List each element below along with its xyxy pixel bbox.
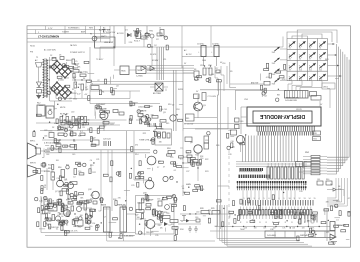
svg-text:S5: S5 — [289, 58, 291, 60]
bl left boost — [35, 197, 65, 228]
display module pin header — [257, 126, 316, 136]
svg-text:C6: C6 — [78, 84, 80, 86]
svg-text:C21: C21 — [96, 159, 99, 161]
svg-text:5: 5 — [264, 198, 265, 200]
svg-text:AMP: AMP — [81, 31, 86, 34]
svg-text:C4: C4 — [182, 188, 184, 190]
svg-text:220: 220 — [196, 211, 199, 213]
svg-text:R50: R50 — [48, 165, 51, 167]
svg-text:RL1: RL1 — [186, 118, 189, 120]
regulator U2 7812 — [136, 66, 155, 78]
svg-text:R4 47K: R4 47K — [150, 54, 157, 56]
svg-text:S1: S1 — [289, 48, 291, 50]
matrix top interconnect wires — [287, 30, 337, 43]
svg-text:1000: 1000 — [202, 60, 206, 62]
svg-text:L1: L1 — [91, 84, 93, 86]
display decoupling caps — [235, 118, 244, 129]
svg-text:C7: C7 — [157, 167, 159, 169]
matrix diode D17 — [309, 52, 316, 60]
svg-text:C2: C2 — [214, 226, 216, 228]
crystal X1 — [150, 83, 168, 95]
capacitor C3 — [197, 44, 206, 67]
mains cluster texture — [195, 68, 222, 83]
svg-text:C10: C10 — [206, 68, 209, 70]
wire center bus — [218, 79, 221, 229]
svg-text:470: 470 — [51, 171, 54, 173]
svg-text:SW4: SW4 — [272, 83, 276, 85]
matrix diode D18 — [319, 52, 326, 60]
svg-text:1-05-4001 KB: 1-05-4001 KB — [285, 100, 297, 102]
svg-text:C4 470u: C4 470u — [212, 44, 219, 46]
svg-text:2SB 2SD: 2SB 2SD — [146, 232, 154, 234]
svg-text:D2: D2 — [154, 45, 156, 47]
svg-text:R9: R9 — [230, 71, 232, 73]
svg-text:S14: S14 — [299, 80, 302, 82]
wire top bus — [100, 46, 283, 48]
wire display data bus — [243, 136, 298, 162]
mains box labels — [184, 49, 223, 65]
matrix diode D21 — [309, 63, 316, 71]
svg-text:C3 470u: C3 470u — [197, 44, 204, 46]
spk area boost — [33, 160, 69, 193]
nested area boost — [216, 199, 242, 226]
svg-text:T1 EI-57: T1 EI-57 — [96, 59, 103, 61]
svg-text:R2: R2 — [72, 89, 74, 91]
wire bottom rails — [210, 226, 330, 231]
svg-text:C8 C9: C8 C9 — [296, 109, 303, 111]
svg-text:C48: C48 — [46, 154, 49, 156]
svg-text:8 OHM: 8 OHM — [44, 151, 50, 153]
bridge wiring — [50, 57, 82, 110]
title block table — [27, 26, 110, 42]
svg-text:S8: S8 — [319, 58, 321, 60]
svg-text:BR MW: BR MW — [152, 60, 158, 62]
svg-text:Q3: Q3 — [98, 128, 100, 130]
svg-text:R15: R15 — [48, 168, 51, 170]
svg-text:D5: D5 — [160, 228, 162, 230]
power amp box — [136, 196, 175, 235]
svg-text:R22: R22 — [149, 124, 152, 126]
relay area boost — [36, 104, 58, 130]
mid right texture — [137, 154, 183, 201]
svg-text:47: 47 — [60, 205, 62, 207]
svg-text:C29: C29 — [131, 185, 134, 187]
svg-text:R22: R22 — [49, 220, 52, 222]
wire serial bus with connector CN5 — [200, 62, 286, 110]
svg-text:R22: R22 — [205, 159, 208, 161]
svg-text:5-TV: 5-TV — [48, 28, 53, 30]
slide pot VR3 TREBLE — [117, 205, 127, 233]
svg-text:S3: S3 — [309, 48, 311, 50]
svg-text:R26: R26 — [216, 145, 219, 147]
feedback resistors — [180, 208, 233, 221]
header J1 outlined pins — [267, 163, 304, 179]
main IC U4 second pin row — [239, 175, 270, 178]
svg-text:BD TRIM: BD TRIM — [153, 93, 161, 95]
svg-text:B+: B+ — [75, 84, 77, 86]
wire col texture — [103, 161, 129, 191]
power labels — [30, 44, 78, 54]
svg-text:470: 470 — [118, 198, 121, 200]
svg-text:R9: R9 — [82, 127, 84, 129]
line input parts texture — [129, 29, 169, 50]
svg-text:R10: R10 — [168, 104, 171, 106]
transistor Q12 — [88, 189, 99, 199]
svg-text:LINE AMP: LINE AMP — [104, 41, 114, 44]
resistor value labels — [244, 228, 315, 230]
svg-text:R23: R23 — [205, 171, 208, 173]
bass treble network — [47, 199, 93, 229]
wire bundle to logic — [147, 47, 194, 131]
svg-text:PRI: PRI — [30, 52, 33, 54]
line input extras — [113, 28, 164, 48]
preamp parts texture — [43, 131, 96, 150]
svg-text:100: 100 — [137, 217, 140, 219]
svg-text:47: 47 — [211, 214, 213, 216]
svg-text:SPK L: SPK L — [30, 141, 35, 143]
svg-text:D2: D2 — [50, 55, 52, 57]
svg-text:R 0.47: R 0.47 — [46, 60, 51, 62]
svg-text:330: 330 — [159, 141, 162, 143]
capacitor C4 — [211, 44, 219, 67]
svg-text:R22: R22 — [163, 37, 166, 39]
svg-text:R22: R22 — [336, 201, 339, 203]
matrix left boost — [262, 63, 286, 101]
wire left bus — [182, 66, 184, 131]
svg-text:SPK R: SPK R — [30, 163, 36, 165]
shield dashed line — [228, 150, 230, 225]
svg-text:R7 220 SW: R7 220 SW — [184, 124, 193, 126]
svg-text:D2: D2 — [52, 127, 54, 129]
svg-text:470: 470 — [79, 205, 82, 207]
svg-text:D7: D7 — [181, 221, 183, 223]
svg-text:C2: C2 — [97, 80, 99, 82]
svg-text:Q12: Q12 — [88, 189, 92, 191]
svg-text:100: 100 — [211, 74, 214, 76]
tone mid texture — [131, 131, 162, 154]
pull-up resistors R20 R21 — [313, 131, 321, 141]
svg-text:D3: D3 — [59, 55, 61, 57]
svg-text:C10: C10 — [65, 205, 68, 207]
svg-text:C10: C10 — [161, 200, 164, 202]
svg-text:S4: S4 — [319, 48, 321, 50]
q9 area boost — [129, 161, 163, 183]
svg-text:R57: R57 — [171, 224, 174, 226]
speaker area boost — [321, 212, 351, 244]
wire mid bus 2 — [183, 128, 240, 130]
matrix diode D14 — [319, 41, 326, 49]
svg-text:D2: D2 — [73, 176, 75, 178]
ground symbols — [188, 226, 198, 232]
svg-text:C7: C7 — [64, 179, 66, 181]
svg-text:12: 12 — [299, 198, 301, 200]
wire right bus lower — [327, 178, 347, 206]
svg-text:R1: R1 — [102, 92, 104, 94]
svg-text:HV-01: HV-01 — [30, 46, 35, 48]
speaker boost 2 — [330, 198, 350, 240]
svg-text:AC 120V 60Hz: AC 120V 60Hz — [44, 49, 56, 52]
rails label boost — [297, 228, 317, 241]
matrix diode D11 — [289, 41, 296, 49]
svg-text:GND: GND — [73, 99, 78, 101]
matrix diode D12 — [299, 41, 306, 49]
svg-text:100: 100 — [49, 109, 52, 111]
svg-text:S13: S13 — [289, 80, 292, 82]
svg-text:9: 9 — [284, 198, 285, 200]
driver parts texture — [41, 171, 84, 203]
svg-text:R20: R20 — [314, 133, 317, 135]
mains filter wires — [182, 26, 220, 68]
svg-text:47: 47 — [139, 118, 141, 120]
transformer T1 — [36, 57, 48, 98]
main IC U4 lower pin rows — [237, 181, 307, 190]
piezo speaker SP1 — [327, 208, 346, 244]
svg-text:C61: C61 — [317, 179, 320, 181]
svg-text:2: 2 — [249, 198, 250, 200]
svg-text:S7: S7 — [309, 58, 311, 60]
svg-text:C28: C28 — [228, 154, 231, 156]
svg-text:0.1: 0.1 — [143, 117, 146, 119]
svg-text:C7 10/16V: C7 10/16V — [208, 96, 217, 98]
svg-text:470: 470 — [326, 232, 329, 234]
svg-text:10: 10 — [289, 198, 291, 200]
transistor Q4 — [185, 136, 209, 168]
svg-text:R4: R4 — [83, 78, 85, 80]
svg-text:1-05-4003: 1-05-4003 — [267, 235, 276, 237]
matrix diode D20 — [299, 63, 306, 71]
regulator U1 7805 — [114, 66, 136, 75]
bias diode extras — [180, 217, 200, 223]
matrix row exit wires — [328, 43, 342, 77]
wire low freq rails — [36, 123, 150, 153]
svg-text:TUNER: TUNER — [62, 32, 69, 34]
mid resistor row extras — [60, 119, 86, 129]
interstage extras — [182, 140, 208, 196]
svg-text:330: 330 — [61, 226, 64, 228]
svg-text:C2: C2 — [139, 122, 141, 124]
matrix diode D24 — [299, 74, 306, 82]
svg-text:C17: C17 — [215, 68, 218, 70]
svg-text:R22: R22 — [195, 154, 198, 156]
PSU extra parts — [46, 55, 88, 101]
svg-text:C2: C2 — [175, 227, 177, 229]
svg-text:R60: R60 — [326, 179, 329, 181]
svg-text:R16: R16 — [58, 167, 61, 169]
svg-text:C1: C1 — [159, 28, 161, 30]
svg-text:R1 4.7: R1 4.7 — [134, 41, 141, 43]
svg-text:C34: C34 — [90, 195, 93, 197]
svg-text:D2: D2 — [172, 105, 174, 107]
main IC U4 square pin row — [239, 168, 263, 172]
wire drops from mains box — [215, 66, 227, 91]
svg-text:C11: C11 — [163, 59, 166, 61]
transistor Q1 — [194, 95, 207, 118]
svg-text:C33: C33 — [299, 191, 302, 193]
driver transistors Q7 Q8 — [48, 167, 77, 193]
wire bus above IC — [236, 162, 307, 166]
svg-text:C27: C27 — [186, 171, 189, 173]
svg-text:470: 470 — [83, 71, 86, 73]
svg-text:47: 47 — [348, 198, 350, 200]
bottom-left boost — [45, 199, 72, 236]
svg-text:DISPLAY: DISPLAY — [300, 234, 309, 237]
matrix diode D25 — [309, 74, 316, 82]
svg-text:47: 47 — [47, 224, 49, 226]
svg-text:0.1: 0.1 — [174, 170, 177, 172]
svg-text:C4: C4 — [67, 199, 69, 201]
svg-text:MUTE: MUTE — [60, 107, 66, 109]
line amp block — [95, 29, 116, 48]
svg-text:S2: S2 — [299, 48, 301, 50]
svg-text:C4: C4 — [141, 233, 143, 235]
wire bottom-left frame — [41, 196, 135, 236]
svg-text:C16: C16 — [222, 63, 225, 65]
wire display left — [195, 107, 247, 134]
svg-text:POWER SUPPLY: POWER SUPPLY — [70, 52, 86, 54]
svg-text:C2: C2 — [57, 215, 59, 217]
svg-text:R22: R22 — [110, 124, 113, 126]
svg-text:0.1: 0.1 — [336, 220, 339, 222]
border frame — [27, 26, 351, 247]
svg-text:220: 220 — [71, 111, 74, 113]
svg-text:C55: C55 — [157, 199, 160, 201]
tone cluster texture — [137, 104, 183, 130]
svg-text:C7: C7 — [315, 216, 317, 218]
display module U3 — [247, 107, 321, 126]
volume parts texture — [95, 106, 114, 134]
svg-text:R8: R8 — [194, 69, 196, 71]
svg-text:47: 47 — [163, 166, 165, 168]
matrix diode D26 — [319, 74, 326, 82]
svg-text:470: 470 — [135, 145, 138, 147]
svg-text:C54: C54 — [92, 223, 95, 225]
inductor L1 — [91, 84, 99, 90]
wire vertical bus mid — [127, 131, 135, 196]
svg-text:RL2: RL2 — [37, 103, 40, 105]
fuse F1 — [90, 26, 110, 47]
svg-text:220: 220 — [87, 129, 90, 131]
svg-text:R40 R41 R42: R40 R41 R42 — [60, 121, 71, 123]
matrix diode D19 — [289, 63, 296, 71]
svg-text:Q3: Q3 — [163, 112, 166, 114]
svg-text:SCHEMATIC: SCHEMATIC — [68, 27, 80, 30]
output clamp extras — [317, 179, 344, 196]
svg-text:T1: T1 — [36, 57, 38, 59]
relay RL2 — [37, 103, 54, 119]
svg-text:C49: C49 — [72, 154, 75, 156]
svg-text:K1: K1 — [140, 34, 142, 36]
thermistor TH1 — [147, 26, 162, 47]
svg-text:C10: C10 — [89, 226, 92, 228]
svg-text:R22: R22 — [92, 172, 95, 174]
svg-text:6: 6 — [269, 198, 270, 200]
rail diodes — [141, 60, 158, 71]
svg-text:C35: C35 — [155, 235, 158, 237]
matrix diode D16 — [299, 52, 306, 60]
mid small texture — [170, 156, 196, 190]
svg-text:C5: C5 — [75, 61, 77, 63]
svg-text:R5 R6 R7: R5 R6 R7 — [60, 114, 68, 116]
svg-text:S15: S15 — [309, 80, 312, 82]
svg-text:C44 C45: C44 C45 — [160, 109, 167, 111]
svg-text:C7: C7 — [104, 216, 106, 218]
matrix column drop wires — [288, 81, 322, 91]
svg-text:220: 220 — [140, 111, 143, 113]
optional row boost — [280, 209, 311, 228]
band left boost — [230, 198, 255, 222]
svg-text:C4: C4 — [90, 160, 92, 162]
psu mid parts — [97, 75, 118, 95]
svg-text:0.47: 0.47 — [77, 94, 81, 96]
svg-text:Q3: Q3 — [116, 86, 118, 88]
driver stage extras — [44, 165, 81, 191]
svg-text:2A 250V: 2A 250V — [70, 44, 78, 47]
svg-text:TONE CTRL: TONE CTRL — [139, 140, 150, 142]
matrix diode D15 — [289, 52, 296, 60]
svg-text:S11: S11 — [309, 69, 312, 71]
svg-text:C60: C60 — [195, 217, 198, 219]
svg-text:D2: D2 — [66, 77, 68, 79]
volume area extras — [95, 108, 109, 128]
svg-text:47: 47 — [49, 213, 51, 215]
svg-text:R28: R28 — [200, 208, 203, 210]
svg-text:BASS: BASS — [101, 204, 107, 207]
PSU filter components — [72, 68, 90, 99]
bottom-left texture A — [45, 197, 98, 230]
relay RL1 — [178, 89, 217, 126]
svg-text:1: 1 — [244, 198, 245, 200]
svg-text:C18: C18 — [176, 109, 179, 111]
svg-text:0.1: 0.1 — [180, 159, 183, 161]
speaker terminal left SPK-R — [28, 163, 49, 178]
svg-text:SW1: SW1 — [272, 52, 276, 54]
svg-text:S10: S10 — [299, 69, 302, 71]
left matrix parts — [260, 71, 284, 98]
wire power rails — [56, 82, 183, 104]
power amp Q11 — [135, 199, 178, 230]
svg-text:R1: R1 — [66, 225, 68, 227]
band mid boost — [257, 192, 285, 225]
svg-text:R55: R55 — [146, 201, 149, 203]
bottom center texture — [183, 206, 216, 228]
bl left boost 2 — [37, 196, 64, 226]
coupling capacitors — [92, 138, 111, 147]
svg-text:C59: C59 — [205, 140, 208, 142]
svg-text:C 1000: C 1000 — [66, 60, 72, 62]
display jumper labels — [286, 96, 321, 112]
svg-text:R27: R27 — [135, 215, 138, 217]
keyboard diode matrix grid — [287, 39, 328, 81]
keyboard connector CN2 — [277, 91, 317, 103]
output drivers Q9 Q10 — [143, 148, 175, 195]
pcb label box — [265, 231, 335, 238]
svg-text:220: 220 — [166, 213, 169, 215]
input resistor row — [58, 114, 92, 132]
svg-text:DISPLAY-MODULE: DISPLAY-MODULE — [259, 113, 305, 119]
driver right boost — [65, 160, 96, 186]
svg-text:R45: R45 — [166, 123, 169, 125]
svg-text:R31: R31 — [338, 189, 341, 191]
transistor Q5 — [231, 130, 245, 152]
svg-text:R18: R18 — [167, 148, 170, 150]
svg-text:D2: D2 — [275, 81, 277, 83]
tone boost 2 — [129, 101, 161, 129]
q5 area texture — [227, 130, 247, 150]
svg-text:MAIN: MAIN — [186, 183, 191, 186]
svg-text:Q3: Q3 — [69, 98, 71, 100]
svg-text:S16: S16 — [319, 80, 322, 82]
resistor network RN2 — [303, 152, 327, 175]
